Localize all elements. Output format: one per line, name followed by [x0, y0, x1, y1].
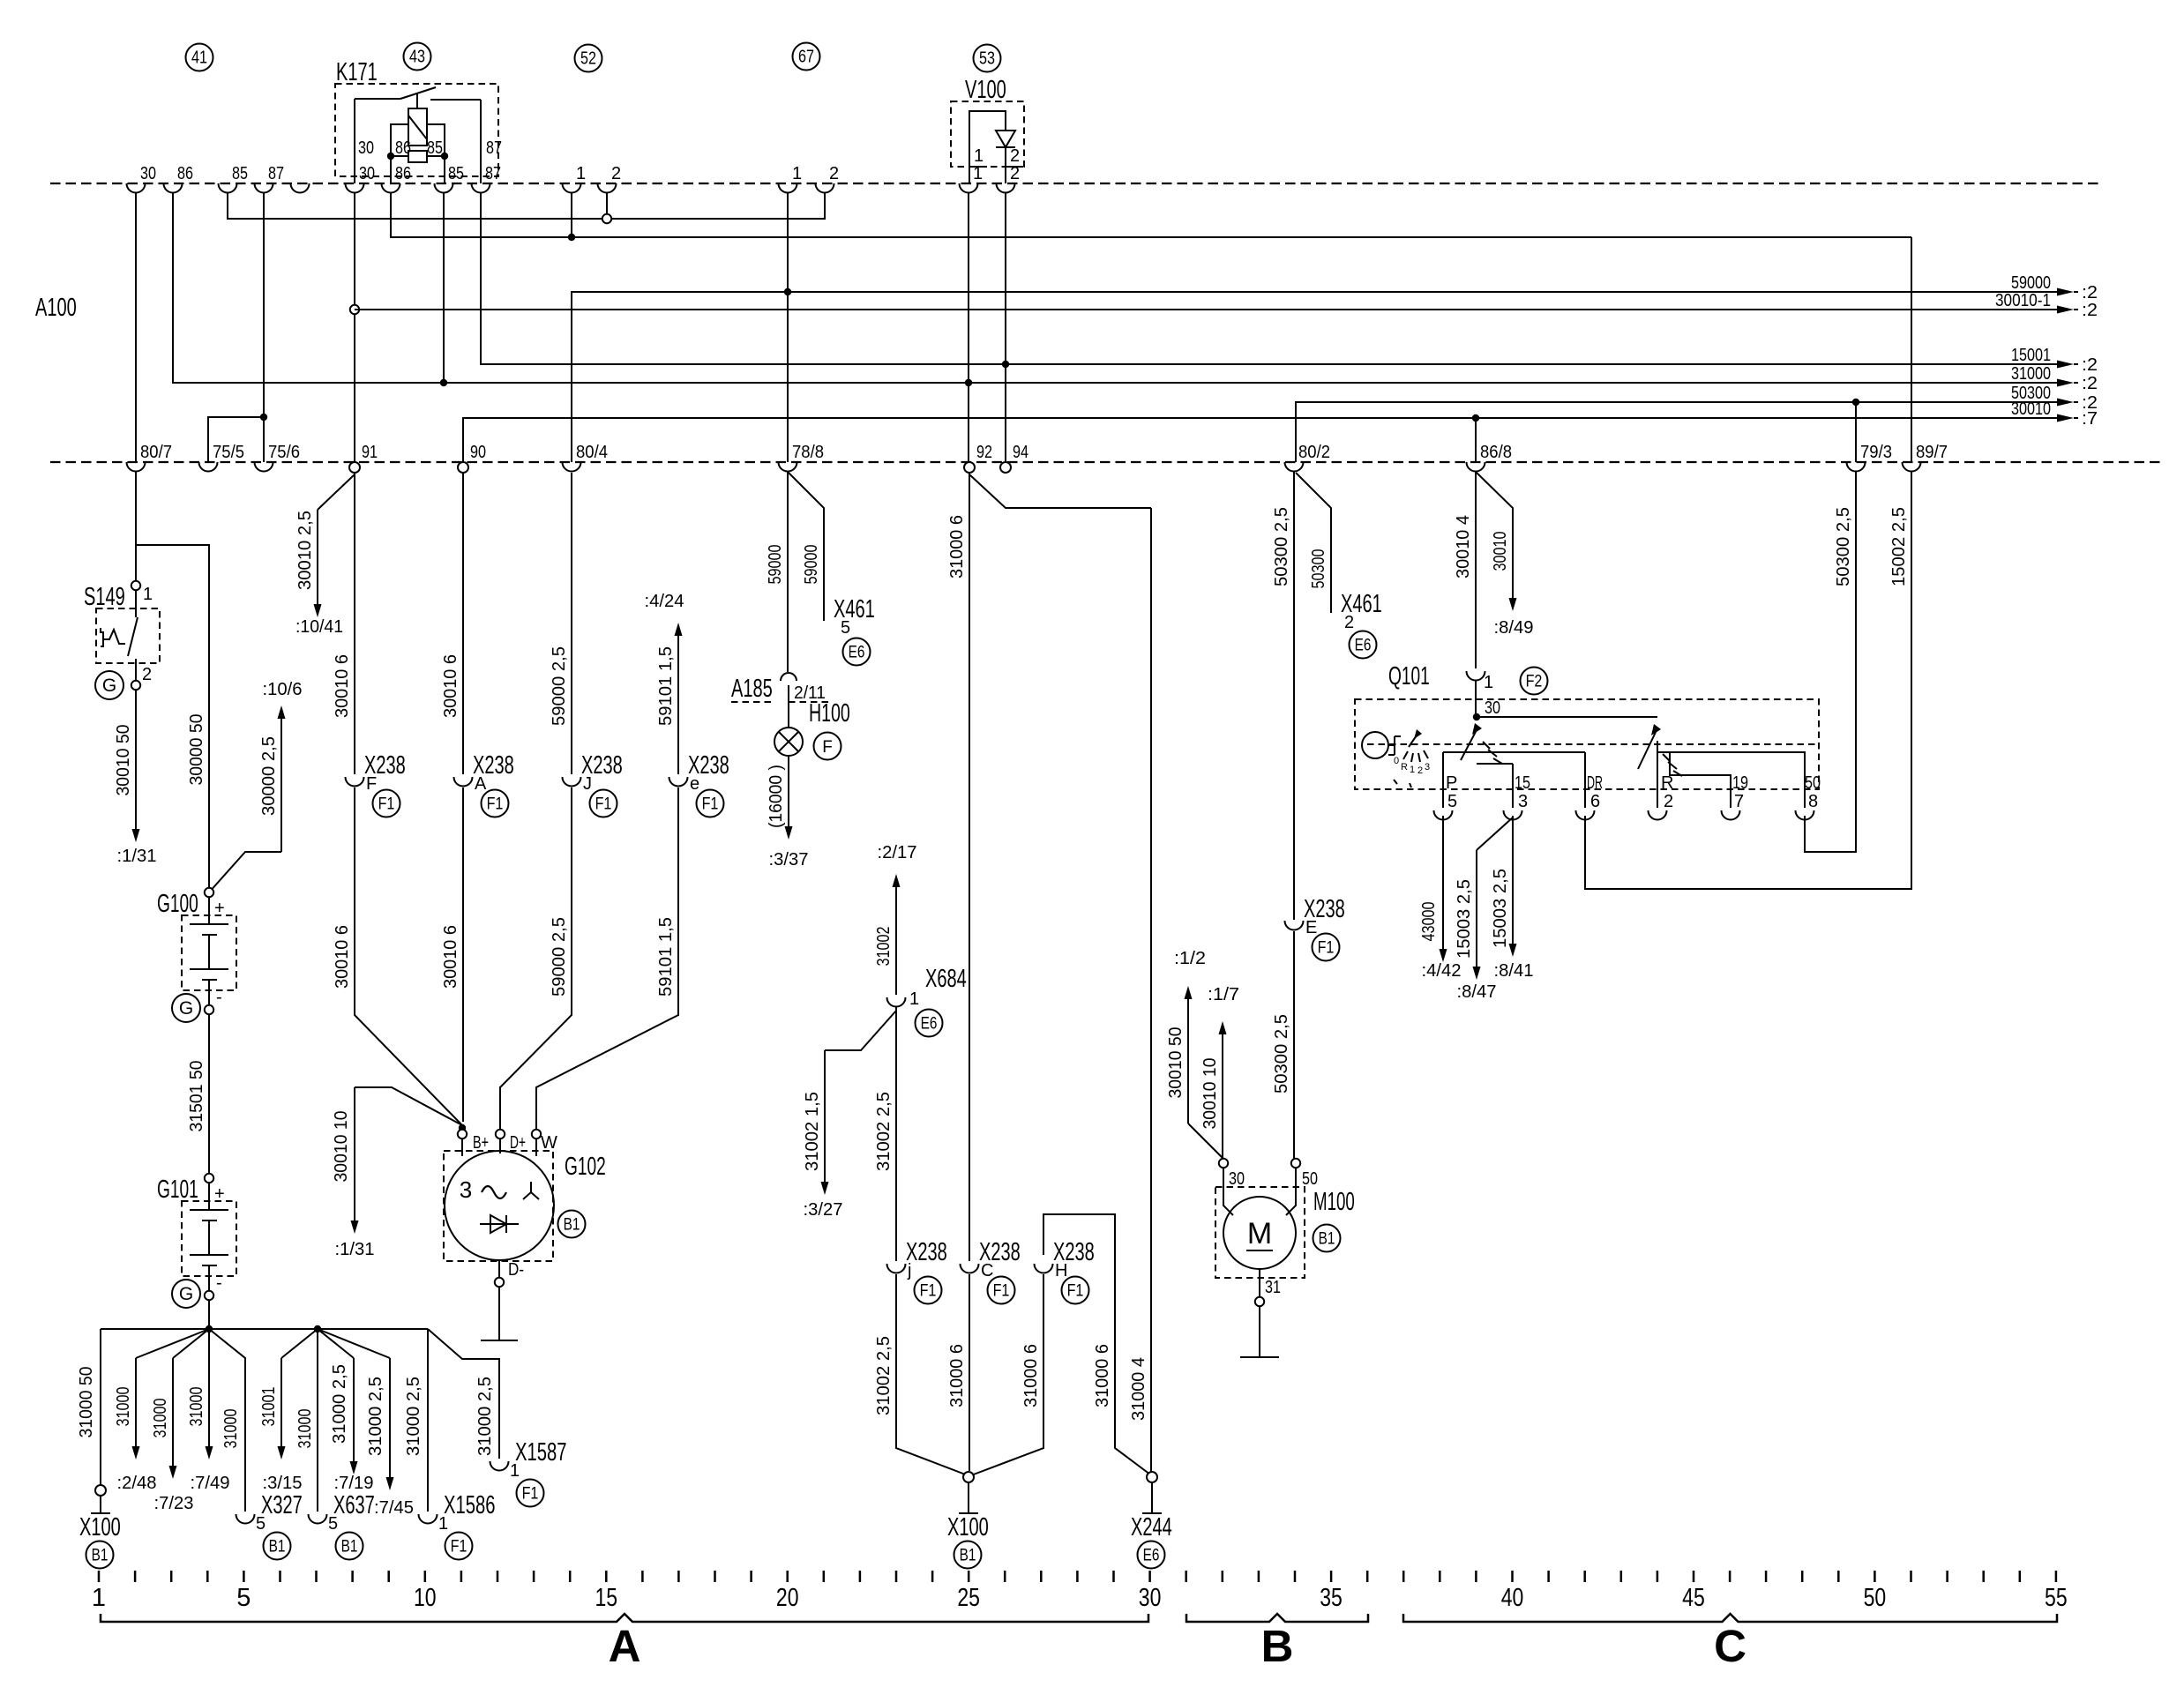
junction dot 31000/92-V100.1 [965, 379, 972, 386]
rail2 connector 80/4 [563, 462, 581, 472]
svg-text:30010 6: 30010 6 [333, 654, 352, 718]
svg-text:K171: K171 [336, 58, 378, 86]
svg-text:31000 4: 31000 4 [1129, 1357, 1148, 1421]
svg-text:A185: A185 [731, 675, 773, 703]
svg-text::2/17: :2/17 [878, 843, 917, 862]
svg-text:B+: B+ [473, 1133, 489, 1153]
goto branch :10/41 (30010 2,5) [318, 474, 355, 510]
Q101 contact arrow 15 [1461, 727, 1478, 760]
svg-text:31002: 31002 [874, 927, 894, 967]
svg-text:3: 3 [1518, 792, 1528, 811]
svg-text:20: 20 [776, 1584, 799, 1612]
svg-text:R: R [1401, 762, 1408, 773]
svg-text:35: 35 [1320, 1584, 1343, 1612]
svg-text:B1: B1 [1319, 1230, 1335, 1249]
wire 75/5 jog [208, 417, 264, 462]
junction dot 31000/K171-85 [440, 379, 447, 386]
svg-text:B1: B1 [960, 1547, 976, 1565]
svg-text:85: 85 [232, 164, 248, 183]
svg-text:1: 1 [792, 164, 802, 183]
svg-text:87: 87 [486, 138, 502, 158]
svg-text:41: 41 [191, 49, 207, 68]
svg-text::1/7: :1/7 [1208, 985, 1239, 1004]
svg-text:31000 6: 31000 6 [1093, 1344, 1112, 1407]
svg-text:6: 6 [1590, 792, 1600, 811]
svg-text:1: 1 [92, 1584, 106, 1612]
svg-text:86: 86 [177, 164, 193, 183]
branch X684 to :3/27 [825, 1011, 896, 1050]
svg-text:30010 6: 30010 6 [441, 925, 460, 989]
svg-text:E6: E6 [1143, 1547, 1160, 1565]
rail1 connector 86 at x=443 [382, 183, 400, 193]
branch 80/2 to X461/2 (50300) [1296, 473, 1331, 613]
svg-text:87: 87 [268, 164, 284, 183]
svg-text:5: 5 [1447, 792, 1457, 811]
svg-text:2: 2 [1664, 792, 1673, 811]
svg-text::8/41: :8/41 [1494, 961, 1534, 981]
rail1 connector 87 at x=299 [255, 183, 273, 193]
svg-text:M: M [1247, 1217, 1272, 1250]
relay K171 coil terminal left [391, 124, 408, 183]
svg-text:50: 50 [1302, 1169, 1318, 1189]
svg-text:30: 30 [358, 138, 374, 158]
diode V100 cathode lead [1005, 147, 1006, 183]
svg-text:31000: 31000 [114, 1387, 133, 1427]
starter M100 terminal 30 [1219, 1159, 1228, 1168]
location code B1 (G102) [558, 1211, 586, 1238]
svg-text:86: 86 [395, 164, 411, 183]
relay K171 coil terminal right [427, 124, 445, 183]
rail1 connector 85 at x=258 [219, 183, 237, 193]
svg-text:F2: F2 [1526, 673, 1543, 691]
rail2 connector 78/8 [779, 462, 797, 472]
svg-text::2: :2 [2082, 393, 2098, 413]
rail2 node 90 [458, 462, 468, 473]
svg-text:2: 2 [142, 665, 152, 684]
svg-text:50300 2,5: 50300 2,5 [1272, 507, 1291, 586]
switch S149 blade [128, 617, 138, 656]
battery G101 cells [208, 1183, 210, 1210]
wire X684 down [895, 1006, 897, 1261]
svg-text:31000 6: 31000 6 [947, 515, 967, 579]
ground symbol (M100) [1240, 1356, 1279, 1358]
connector X238/C [961, 1264, 979, 1273]
svg-text:X1587: X1587 [515, 1438, 567, 1467]
branch 92 to 31000-4 riser [969, 474, 1151, 508]
wire K171-30 to 91 (x=402) [354, 192, 355, 462]
connector X238/F [346, 777, 364, 787]
zone brace B [1186, 1614, 1368, 1622]
svg-text::2: :2 [2082, 283, 2098, 302]
starter M100 terminal 50 [1291, 1159, 1300, 1168]
svg-text:J: J [583, 774, 592, 794]
wire 1-grp67 to 78/8 (x=893) [787, 192, 789, 462]
Q101 DR wire to 89/7 (15002 2,5) [1585, 471, 1911, 889]
battery G100 cells [208, 897, 210, 924]
connector X238/E [1285, 921, 1304, 930]
svg-text::3/27: :3/27 [804, 1200, 843, 1220]
svg-text::2: :2 [2082, 374, 2098, 393]
node on wire 248 (2-grp52) [606, 192, 608, 219]
svg-text:50300: 50300 [2011, 384, 2051, 403]
svg-text:W: W [541, 1133, 557, 1153]
rail1 connector 87 at x=545 [472, 183, 490, 193]
wire 89/7 riser (x=2167) [1911, 237, 1912, 462]
switch S149 wire into box [135, 590, 137, 617]
wire X238/A to B+ [462, 788, 464, 1122]
connector A185 2/11 [781, 673, 797, 681]
svg-text:59000 2,5: 59000 2,5 [550, 917, 569, 997]
wire 31000 50 to X100 [100, 1329, 101, 1485]
svg-text:31000 6: 31000 6 [1021, 1344, 1041, 1407]
fan wire to X637 [317, 1329, 318, 1512]
relay K171 junction dot 85 [441, 153, 448, 160]
sheet ref circle 53 [974, 45, 1001, 72]
svg-text:V100: V100 [965, 76, 1006, 104]
fan wire :7/19 [318, 1329, 354, 1358]
wire 80/4 riser (x=648) net 59000 [572, 292, 2057, 462]
svg-text:59000: 59000 [2011, 273, 2051, 293]
fan wire :7/23 [173, 1329, 209, 1358]
svg-text:31000: 31000 [2011, 364, 2051, 384]
terminal X100 center [963, 1472, 974, 1482]
svg-text:86/8: 86/8 [1480, 443, 1512, 462]
wire X238/F to B+ junction [355, 788, 462, 1125]
wire 90 riser (x=525) net 30010 [463, 418, 2057, 462]
svg-text::10/41: :10/41 [295, 617, 343, 637]
rail2 connector 75/6 [255, 462, 273, 472]
svg-text:2: 2 [1344, 613, 1354, 632]
wire 92 down (31000 6) [969, 473, 970, 1261]
svg-text:A: A [475, 774, 487, 794]
wire 30-grp41 to 80/7 (x=154) [135, 192, 137, 462]
rail2 connector 80/7 [127, 462, 146, 472]
goto branch :10/6 from G100+ [209, 852, 281, 892]
svg-text:15: 15 [1515, 773, 1530, 793]
junction dot 75/5-75/6 [260, 414, 267, 421]
branch 86/8 to :8/49 (30010) [1476, 472, 1513, 529]
wire 31501 50 G100- to G101+ [208, 1014, 210, 1174]
rail1 connector 86 at x=196 [164, 183, 183, 193]
svg-text:52: 52 [580, 49, 596, 69]
svg-text:31: 31 [1265, 1278, 1281, 1297]
svg-text:31000 2,5: 31000 2,5 [404, 1377, 423, 1456]
svg-text:30010 10: 30010 10 [1200, 1058, 1220, 1130]
svg-text:1: 1 [1484, 673, 1493, 692]
wire 86/8 riser (x=1673) [1475, 418, 1477, 462]
svg-text:F1: F1 [595, 795, 612, 814]
sheet ref circle 43 [404, 43, 431, 71]
wire X238/C to X100 node [969, 1274, 970, 1471]
svg-text:86: 86 [395, 138, 411, 158]
wire 30010 50 down from S149 [135, 690, 137, 832]
branch 78/8 to X461/5 (59000) [788, 472, 824, 621]
wire to M100 pin30 [1188, 1123, 1223, 1159]
Q101 junction dot 30 [1473, 713, 1480, 720]
svg-text:F1: F1 [993, 1282, 1010, 1301]
svg-text:M100: M100 [1313, 1188, 1355, 1216]
svg-text:50300: 50300 [1309, 549, 1328, 589]
svg-text:G102: G102 [565, 1153, 606, 1181]
svg-text:50: 50 [1805, 773, 1821, 793]
svg-text:31000 2,5: 31000 2,5 [366, 1377, 385, 1456]
rail1 connector 30 at x=154 [127, 183, 146, 193]
top rail (A100 upper dashed bus) [50, 183, 2102, 184]
ground bus junction dot 1 [206, 1325, 213, 1332]
svg-text:G: G [102, 676, 116, 696]
svg-text:0: 0 [1394, 756, 1399, 766]
Q101 pin hooks [1434, 810, 1453, 820]
goto arrow :4/24 (59101 1,5) [677, 633, 679, 774]
svg-text::8/47: :8/47 [1457, 982, 1497, 1002]
Q101 pin 19 step lead [1670, 752, 1731, 808]
svg-text::1/2: :1/2 [1174, 949, 1206, 968]
rail1 connector 30 at x=402 [346, 183, 364, 193]
svg-text:30010 6: 30010 6 [441, 654, 460, 718]
svg-text:X244: X244 [1131, 1513, 1172, 1542]
Q101 mechanical dashed line [1367, 743, 1817, 745]
svg-text::2: :2 [2082, 301, 2098, 320]
svg-text:30: 30 [1229, 1169, 1245, 1189]
svg-text:1: 1 [974, 146, 984, 166]
svg-text:30010-1: 30010-1 [1995, 291, 2051, 310]
svg-text:31002 2,5: 31002 2,5 [874, 1092, 894, 1171]
svg-text::7/45: :7/45 [374, 1498, 414, 1518]
relay K171 actuator stub [416, 93, 418, 108]
alternator G102 terminal B+ [458, 1130, 467, 1138]
svg-text:30: 30 [1485, 698, 1500, 718]
svg-text:59101 1,5: 59101 1,5 [656, 917, 676, 997]
svg-text:X100: X100 [79, 1513, 121, 1542]
svg-text:R: R [1661, 773, 1673, 793]
rail1 connector 85 at x=503 [435, 183, 453, 193]
svg-text:X637: X637 [333, 1491, 375, 1519]
junction dot 50300/79-3 [1852, 399, 1859, 406]
svg-text:45: 45 [1682, 1584, 1705, 1612]
svg-text:15: 15 [595, 1584, 617, 1612]
svg-text:15002 2,5: 15002 2,5 [1889, 507, 1909, 586]
svg-text:F: F [822, 738, 833, 757]
svg-text:F1: F1 [522, 1485, 539, 1504]
svg-text:B1: B1 [269, 1538, 286, 1556]
wire K171-86 riser (x=443) [391, 192, 1911, 237]
svg-text:43000: 43000 [1419, 902, 1439, 942]
relay K171 fixed contact segment [355, 98, 400, 100]
svg-text:59000: 59000 [802, 545, 821, 585]
svg-text:F1: F1 [378, 795, 395, 814]
relay K171 contact 87 segment [430, 99, 481, 101]
svg-text:3: 3 [1425, 762, 1430, 773]
svg-text:F1: F1 [451, 1538, 467, 1556]
svg-text:80/2: 80/2 [1298, 443, 1330, 462]
wire S149.1 to battery link [136, 545, 209, 888]
zone brace A [101, 1614, 1148, 1622]
svg-text:80/7: 80/7 [140, 443, 172, 462]
wire G101- to ground bus [208, 1300, 210, 1329]
relay K171 resistor leads [391, 155, 408, 157]
svg-text:H100: H100 [809, 699, 850, 728]
rail2 node 92 [964, 462, 975, 473]
location code B1 (M100) [1313, 1225, 1341, 1252]
svg-text:43: 43 [409, 48, 425, 67]
rail1 connector 2 at x=935 [816, 183, 834, 193]
wire X238/e to W terminal [536, 788, 678, 1129]
wire 87-grp41 to 75/6 (x=299) [263, 192, 265, 462]
svg-text:85: 85 [427, 138, 443, 158]
svg-text:F: F [366, 774, 377, 794]
svg-text:F1: F1 [1067, 1282, 1084, 1301]
goto branch 30010 10 to :1/31 [355, 1087, 462, 1125]
svg-text:Q101: Q101 [1388, 662, 1430, 691]
relay K171 pin87 riser [480, 100, 482, 183]
svg-text::1/31: :1/31 [117, 847, 157, 866]
relay K171 dashed box [335, 84, 498, 176]
svg-text:30000 50: 30000 50 [187, 714, 206, 786]
svg-text:30010 50: 30010 50 [1166, 1027, 1185, 1099]
svg-text:E6: E6 [921, 1015, 938, 1034]
wire 78/8 down (59000) [787, 471, 789, 672]
svg-text:40: 40 [1501, 1584, 1524, 1612]
svg-text:30010 4: 30010 4 [1454, 515, 1473, 579]
svg-text:F1: F1 [1318, 939, 1335, 958]
connector X1586 [419, 1514, 438, 1524]
svg-text:91: 91 [362, 443, 378, 462]
svg-text:C: C [981, 1261, 993, 1280]
svg-text:92: 92 [976, 443, 992, 462]
svg-text:1: 1 [576, 164, 586, 183]
svg-text:E6: E6 [1355, 637, 1372, 655]
svg-text:G100: G100 [157, 890, 198, 918]
svg-text:30010 10: 30010 10 [332, 1111, 351, 1183]
svg-text:19: 19 [1732, 773, 1748, 793]
svg-text:1: 1 [143, 585, 153, 604]
goto arrow :2/17 (31002) [895, 885, 897, 995]
svg-text:X327: X327 [261, 1491, 303, 1519]
svg-text:D+: D+ [510, 1133, 526, 1153]
location code G (S149) [95, 671, 123, 699]
alternator G102 ground wire [498, 1287, 500, 1340]
svg-text:15003 2,5: 15003 2,5 [1455, 879, 1474, 959]
alternator G102 star symbol [530, 1182, 532, 1192]
wire 80/7 to S149.1 [135, 471, 137, 581]
svg-text:F1: F1 [487, 795, 504, 814]
svg-text:-: - [216, 1273, 222, 1293]
svg-text:2: 2 [611, 164, 621, 183]
sheet ref circle 67 [793, 43, 820, 71]
Q101 50 wire to 79/3 (50300 2,5) [1805, 471, 1856, 852]
svg-text:X238: X238 [906, 1238, 947, 1266]
Q101 pin P lead [1442, 752, 1444, 808]
fan wire :7/49 [208, 1329, 210, 1449]
svg-text:B1: B1 [341, 1538, 358, 1556]
Q101 15 wire 15003 to :8/41 [1512, 816, 1514, 946]
svg-text:X1586: X1586 [444, 1491, 496, 1519]
connector X238/J [563, 777, 581, 787]
svg-text:85: 85 [448, 164, 464, 183]
svg-text::1/31: :1/31 [335, 1240, 375, 1259]
wire 80/4 to X238/J (59000 2,5) [571, 473, 572, 774]
alternator G102 body [445, 1151, 554, 1260]
zone brace C [1403, 1614, 2057, 1622]
battery G100 dashed box [182, 915, 236, 990]
svg-text::7/23: :7/23 [154, 1494, 194, 1513]
diode V100 internal loop [969, 111, 1006, 183]
svg-text:30000 2,5: 30000 2,5 [259, 736, 279, 816]
switch S149 dashed box [96, 608, 160, 663]
alternator G102 terminal stubs [461, 1138, 463, 1156]
svg-text:30010: 30010 [1491, 532, 1510, 571]
Q101 contact bar P-DR [1443, 751, 1585, 753]
svg-text:1: 1 [510, 1461, 520, 1481]
svg-text:j: j [907, 1261, 911, 1280]
svg-text:31501 50: 31501 50 [187, 1061, 206, 1132]
wire 85-grp41 riser (x=258) [228, 192, 825, 219]
rail1 connector 1 at x=648 [563, 183, 581, 193]
battery G101 + node [205, 1174, 213, 1183]
svg-text:59000: 59000 [766, 545, 785, 585]
svg-text:59101 1,5: 59101 1,5 [656, 646, 676, 726]
svg-text:1: 1 [438, 1514, 448, 1534]
svg-text:53: 53 [979, 49, 995, 69]
switch S149 wire pin2 [135, 659, 137, 680]
svg-text::7/49: :7/49 [191, 1474, 230, 1493]
svg-text:8: 8 [1808, 792, 1818, 811]
svg-text:2: 2 [1010, 146, 1020, 166]
svg-text:C: C [1714, 1621, 1746, 1671]
svg-text:A: A [609, 1621, 641, 1671]
alternator G102 junction dot B+ [459, 1124, 466, 1131]
svg-text:5: 5 [841, 618, 850, 638]
svg-text:90: 90 [470, 443, 486, 462]
svg-text:7: 7 [1734, 792, 1744, 811]
fan wire :3/15 [281, 1329, 318, 1358]
wire 79/3 riser (x=2104) [1855, 402, 1857, 462]
svg-text:5: 5 [256, 1514, 266, 1534]
connector X684 pin1 [887, 997, 906, 1007]
rail2 connector 75/5 [199, 462, 218, 472]
sheet ref circle 41 [186, 44, 213, 71]
connector Q101 pin1 [1467, 671, 1485, 681]
junction dot K171-86/1-grp52 [568, 234, 575, 241]
battery G100 + node [205, 888, 213, 897]
switch S149 thermal element [101, 628, 103, 646]
svg-text:F1: F1 [702, 795, 719, 814]
Q101 pin R lead [1657, 741, 1658, 808]
svg-text:75/5: 75/5 [213, 443, 244, 462]
svg-text:15001: 15001 [2011, 346, 2051, 365]
wire K171-85 (x=503) [443, 192, 445, 383]
wire A185 to H100 [788, 685, 789, 728]
wire X238/j to X100 node [896, 1274, 968, 1475]
diode V100 symbol [996, 131, 1015, 147]
svg-text:78/8: 78/8 [792, 443, 824, 462]
rail2 connector 86/8 [1467, 462, 1485, 472]
relay K171 junction dot 86 [387, 153, 394, 160]
net 31000 exit arrow [2055, 382, 2061, 384]
svg-text::3/37: :3/37 [769, 850, 809, 870]
alternator G102 diode symbol [490, 1215, 506, 1233]
rail2 connector 80/2 [1285, 462, 1304, 472]
svg-text:31000 50: 31000 50 [77, 1367, 96, 1438]
svg-text::10/6: :10/6 [263, 680, 303, 699]
svg-text:1: 1 [909, 989, 919, 1009]
svg-text::8/49: :8/49 [1494, 618, 1534, 638]
ignition switch Q101 dashed box [1355, 699, 1819, 789]
junction dot 30010/86-8 [1472, 414, 1479, 422]
rail1 connector 2 at x=1140 [997, 183, 1015, 193]
starter M100 body [1223, 1197, 1296, 1269]
net 30010-1 branch node [350, 305, 359, 314]
